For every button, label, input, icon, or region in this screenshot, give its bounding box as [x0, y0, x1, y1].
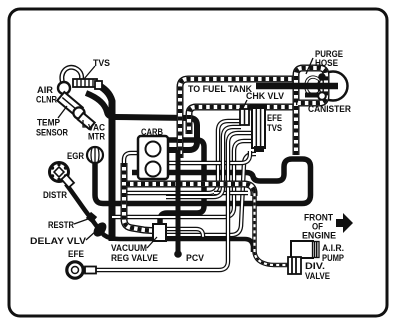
wire: short canister lower stub — [305, 93, 320, 98]
hose dashed: fuel tank line top — [180, 79, 296, 158]
TVS bar — [73, 79, 102, 89]
air cleaner port circle — [58, 82, 70, 94]
wire: EFE pipe from ring right, up to EFE TVS — [96, 133, 252, 270]
pointer VAC MTR — [83, 120, 88, 127]
pointer RESTR — [74, 219, 88, 224]
pointer lines — [58, 58, 313, 248]
svg-text:ENGINE: ENGINE — [302, 231, 336, 241]
AIR pump — [291, 241, 319, 258]
wire: thin tube step rising to EFE TVS bottom — [167, 154, 256, 235]
svg-text:REG VALVE: REG VALVE — [111, 253, 158, 263]
svg-text:TVS: TVS — [93, 58, 110, 68]
svg-text:CANISTER: CANISTER — [308, 104, 351, 114]
EFE ring bottom left — [67, 262, 96, 278]
pointer PURGE — [306, 58, 313, 74]
wire: thick solid purge bar to canister — [256, 83, 338, 90]
pointer VACUUM REG — [147, 237, 157, 248]
hose dashed: purge line second — [189, 107, 296, 134]
canister inner tube loop — [306, 77, 320, 95]
carburetor CARB — [138, 136, 168, 179]
svg-text:TEMP: TEMP — [37, 118, 60, 128]
svg-text:DELAY VLV: DELAY VLV — [30, 236, 87, 246]
PCV dot — [174, 250, 182, 258]
svg-text:CLNR: CLNR — [36, 95, 57, 105]
wire: thin tube second riser to check valve — [166, 127, 241, 197]
wire: distributor hose to delay valve then right — [66, 184, 253, 252]
svg-text:DISTR: DISTR — [43, 190, 67, 200]
wire: thick hose TVS2 to S-bend down to carb right — [86, 93, 197, 150]
svg-text:AIR: AIR — [37, 85, 53, 95]
canister body — [319, 72, 348, 101]
svg-text:HOSE: HOSE — [315, 58, 338, 68]
svg-text:VACUUM: VACUUM — [111, 243, 147, 253]
canister port lower — [318, 92, 326, 100]
hose dashed: canister wrap loop — [296, 68, 326, 155]
wire: thick hose carb right to vacuum reg valve — [160, 140, 204, 226]
svg-text:EGR: EGR — [67, 151, 84, 161]
pointer CHK VLV — [243, 100, 247, 108]
svg-text:SENSOR: SENSOR — [36, 128, 68, 138]
wire: PCV vertical — [176, 150, 181, 251]
EGR valve — [87, 147, 103, 163]
vac mtr lower bracket — [78, 113, 95, 129]
restrictor blob — [86, 212, 97, 223]
distributor nipple — [61, 175, 74, 188]
svg-text:RESTR: RESTR — [48, 220, 74, 230]
svg-text:CARB: CARB — [141, 127, 163, 137]
svg-text:TVS: TVS — [267, 123, 282, 133]
svg-text:PCV: PCV — [186, 253, 205, 263]
hose dashed: branch y184 to bump — [126, 184, 254, 196]
delay valve blob — [91, 220, 109, 239]
check valve — [240, 109, 249, 125]
hose dashed thin: down to diverter valve — [255, 190, 289, 265]
hose dashed: carb port down through reg valve — [124, 153, 158, 231]
svg-text:EFE: EFE — [68, 249, 84, 259]
wire: thin tube carb right to EFE TVS foot — [168, 151, 250, 163]
wire: thick hose TVS to big vertical x112 — [96, 84, 112, 241]
diverter valve — [288, 257, 301, 274]
front of engine arrow — [336, 213, 353, 233]
svg-text:A.I.R.: A.I.R. — [322, 243, 344, 253]
EFE TVS body — [250, 104, 267, 152]
pointer DELAY VLV — [86, 231, 96, 240]
vacuum reg valve body — [153, 224, 166, 241]
svg-text:TO FUEL TANK: TO FUEL TANK — [188, 84, 252, 94]
wire: thick hose EGR - bump loop - carb base — [95, 159, 311, 204]
vac mtr circle — [73, 107, 84, 118]
svg-text:PUMP: PUMP — [322, 253, 344, 263]
wire: thin tube t2 to EFE TVS left — [112, 141, 252, 217]
svg-text:CHK VLV: CHK VLV — [246, 91, 285, 101]
air cleaner assembly — [57, 67, 102, 129]
wire: thin tube t1 carb area to check valve — [122, 121, 241, 193]
svg-text:MTR: MTR — [88, 132, 105, 142]
temp sensor body — [57, 92, 82, 116]
svg-text:DIV.: DIV. — [305, 261, 325, 271]
canister port upper — [318, 73, 326, 81]
pointer TEMP SENSOR — [58, 106, 67, 118]
svg-text:VALVE: VALVE — [305, 271, 330, 281]
wire: thin tube reg valve to dist line — [167, 229, 203, 239]
svg-text:EFE: EFE — [267, 113, 282, 123]
loop tube — [62, 67, 82, 84]
distributor — [50, 163, 74, 188]
wire: thin tube y193 extension — [214, 191, 248, 196]
pointer TVS — [84, 66, 95, 79]
